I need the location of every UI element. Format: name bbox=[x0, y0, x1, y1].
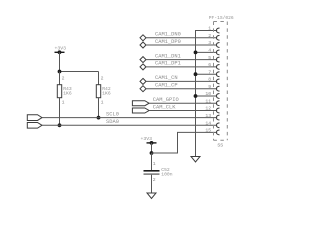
flag CAM1_DP1 bbox=[140, 64, 146, 70]
svg-text:CAM_GPIO: CAM_GPIO bbox=[153, 97, 179, 103]
svg-text:15: 15 bbox=[205, 128, 211, 134]
pin 1 contact bbox=[216, 28, 219, 33]
wire junction to pin 15 bbox=[152, 132, 218, 153]
wire CAM1_DP1 to pin 6 bbox=[146, 66, 217, 68]
svg-text:12: 12 bbox=[205, 106, 211, 112]
svg-text:2: 2 bbox=[62, 75, 65, 81]
flag CAM1_DN0 bbox=[140, 35, 146, 41]
flag CAM_CLK bbox=[132, 108, 149, 113]
svg-text:2: 2 bbox=[153, 177, 156, 183]
pin 4 contact bbox=[216, 50, 219, 55]
pin 10 contact bbox=[216, 94, 219, 99]
wire CAM1_DP0 to pin 3 bbox=[146, 44, 217, 46]
node R43 junction bbox=[58, 123, 62, 127]
svg-text:10: 10 bbox=[205, 91, 211, 97]
pin 2 contact bbox=[216, 35, 219, 40]
wire pin 4 stub bbox=[196, 51, 218, 53]
connector S2 PF-1S/026 bbox=[209, 15, 234, 149]
resistor R43 1K6 bbox=[57, 72, 72, 126]
wire CAM_GPIO to pin 11 bbox=[149, 102, 217, 104]
svg-text:11: 11 bbox=[205, 98, 211, 104]
flag CAM1_DP0 bbox=[140, 42, 146, 48]
power +3V3 top bbox=[55, 45, 67, 54]
node pin 4 junction bbox=[194, 51, 198, 55]
svg-text:PF-1S/026: PF-1S/026 bbox=[209, 15, 234, 21]
pin 7 contact bbox=[216, 72, 219, 77]
flag CAM1_CN bbox=[140, 78, 146, 84]
svg-text:+3V3: +3V3 bbox=[55, 45, 67, 51]
svg-text:CAM1_DN1: CAM1_DN1 bbox=[155, 53, 181, 59]
wire pin 10 stub bbox=[196, 95, 218, 97]
svg-text:1: 1 bbox=[153, 161, 156, 167]
pin 6 contact bbox=[216, 64, 219, 69]
node bottom junction bbox=[150, 151, 154, 155]
svg-text:3: 3 bbox=[208, 40, 211, 46]
resistor R42 1K6 bbox=[96, 72, 111, 118]
svg-text:1K6: 1K6 bbox=[63, 91, 72, 97]
wire +3V3 down to T junction bbox=[59, 52, 61, 71]
svg-text:1: 1 bbox=[208, 26, 211, 32]
svg-text:+3V3: +3V3 bbox=[141, 136, 153, 142]
svg-text:1: 1 bbox=[101, 100, 104, 106]
flag SCL0 bbox=[27, 115, 42, 121]
wire CAM1_DN0 to pin 2 bbox=[146, 37, 217, 39]
wire +3V3 down to junction bbox=[151, 143, 153, 153]
svg-text:8: 8 bbox=[208, 77, 211, 83]
svg-text:CAM_CLK: CAM_CLK bbox=[153, 104, 176, 110]
pin 8 contact bbox=[216, 79, 219, 84]
svg-text:CAM1_DP0: CAM1_DP0 bbox=[155, 39, 181, 45]
svg-text:6: 6 bbox=[208, 62, 211, 68]
pin 11 contact bbox=[216, 101, 219, 106]
svg-text:2: 2 bbox=[101, 75, 104, 81]
flag CAM1_CP bbox=[140, 86, 146, 92]
svg-text:1: 1 bbox=[62, 100, 65, 106]
svg-text:14: 14 bbox=[205, 121, 211, 127]
pin 5 contact bbox=[216, 57, 219, 62]
pin 14 contact bbox=[216, 123, 219, 128]
flag SDA0 bbox=[27, 122, 42, 128]
ground C52 bbox=[147, 193, 156, 199]
svg-text:SS: SS bbox=[217, 143, 223, 149]
svg-text:4: 4 bbox=[208, 48, 211, 54]
pin 12 contact bbox=[216, 108, 219, 113]
wire SDA0 to pin 14 bbox=[42, 124, 217, 126]
svg-text:100n: 100n bbox=[161, 172, 172, 178]
svg-text:CAM1_DN0: CAM1_DN0 bbox=[155, 32, 181, 38]
svg-text:SCL0: SCL0 bbox=[106, 111, 119, 117]
pin 15 contact bbox=[216, 130, 219, 135]
ground bus GND bbox=[191, 157, 200, 163]
svg-text:CAM1_CN: CAM1_CN bbox=[155, 75, 178, 81]
svg-text:9: 9 bbox=[208, 84, 211, 90]
node T junction bbox=[58, 70, 62, 74]
svg-text:2: 2 bbox=[208, 33, 211, 39]
svg-text:CAM1_DP1: CAM1_DP1 bbox=[155, 61, 181, 67]
wire GND bus from pin 1 bbox=[196, 31, 218, 157]
wire T branch to R42 bbox=[60, 71, 99, 73]
svg-text:CAM1_CP: CAM1_CP bbox=[155, 83, 178, 89]
node pin 10 junction bbox=[194, 94, 198, 98]
capacitor C52 100n bbox=[144, 153, 173, 193]
svg-text:5: 5 bbox=[208, 55, 211, 61]
node R42 junction bbox=[97, 116, 101, 120]
wire pin 7 stub bbox=[196, 73, 218, 75]
pin 13 contact bbox=[216, 115, 219, 120]
wire CAM1_CP to pin 9 bbox=[146, 88, 217, 90]
flag CAM1_DN1 bbox=[140, 57, 146, 63]
svg-text:7: 7 bbox=[208, 69, 211, 75]
wire SCL0 to pin 13 bbox=[42, 117, 217, 119]
svg-text:1K6: 1K6 bbox=[102, 91, 111, 97]
wire CAM1_DN1 to pin 5 bbox=[146, 59, 217, 61]
wire CAM1_CN to pin 8 bbox=[146, 80, 217, 82]
svg-text:SDA0: SDA0 bbox=[106, 119, 119, 125]
pin 9 contact bbox=[216, 86, 219, 91]
node pin 7 junction bbox=[194, 72, 198, 76]
power +3V3 bottom bbox=[141, 136, 157, 145]
wire CAM_CLK to pin 12 bbox=[149, 110, 217, 112]
flag CAM_GPIO bbox=[132, 101, 149, 106]
pin 3 contact bbox=[216, 43, 219, 48]
svg-text:13: 13 bbox=[205, 113, 211, 119]
